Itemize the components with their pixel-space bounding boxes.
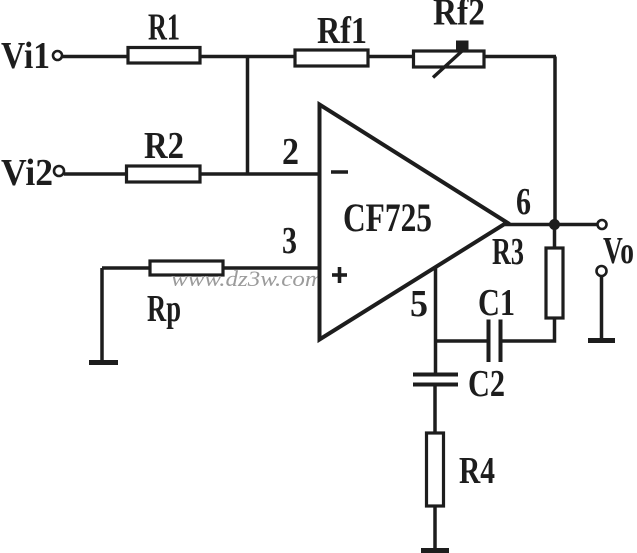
svg-text:CF725: CF725: [343, 195, 432, 240]
wire Vi2 row to pin 2: [64, 172, 318, 176]
resistor R3: [546, 248, 563, 318]
ground bottom: [421, 548, 449, 553]
wire R3 bottom to C1: [500, 318, 555, 341]
resistor R2: [127, 166, 201, 182]
svg-text:C1: C1: [478, 282, 515, 324]
wire feedback vertical right rail: [553, 57, 557, 226]
terminal ground stub circle: [597, 266, 607, 276]
wire pin 3 row: [102, 266, 318, 270]
junction node output: [549, 219, 560, 230]
wire left ground drop: [100, 268, 104, 361]
svg-text:C2: C2: [468, 363, 505, 405]
wire C2 to R4: [433, 385, 437, 433]
svg-text:R1: R1: [148, 7, 180, 49]
svg-text:2: 2: [282, 131, 299, 173]
potentiometer Rf2: [414, 41, 485, 78]
svg-text:3: 3: [282, 220, 297, 262]
svg-text:R3: R3: [492, 231, 524, 273]
capacitor C2: [413, 375, 458, 385]
svg-text:Rf1: Rf1: [317, 10, 367, 52]
svg-text:6: 6: [516, 181, 531, 223]
wire node to R3: [553, 225, 557, 248]
svg-text:R4: R4: [459, 450, 495, 492]
svg-text:Rf2: Rf2: [433, 0, 485, 34]
terminal Vi2: [54, 166, 64, 176]
terminal Vo: [598, 220, 607, 229]
wire Vo ground drop: [600, 276, 604, 339]
wire top rail Vi1 to corner: [62, 55, 556, 59]
svg-text:Vo: Vo: [603, 230, 634, 272]
resistor Rf1: [295, 50, 368, 66]
resistor R4: [427, 433, 444, 506]
svg-text:Rp: Rp: [147, 288, 181, 330]
capacitor C1: [489, 320, 501, 363]
ground left: [89, 360, 118, 365]
wire junction vertical R1/R2 node: [246, 57, 250, 175]
resistor R1: [128, 48, 200, 64]
resistor Rp: [150, 261, 223, 275]
wire R4 to ground: [433, 506, 437, 549]
svg-text:R2: R2: [144, 125, 184, 167]
op-amp U1 CF725: [320, 105, 508, 340]
ground right: [588, 338, 615, 343]
svg-text:Vi1: Vi1: [1, 35, 50, 77]
wire output pin 6: [505, 223, 597, 227]
svg-text:5: 5: [410, 283, 428, 325]
svg-text:www.dz3w.com: www.dz3w.com: [171, 266, 323, 291]
svg-text:Vi2: Vi2: [1, 152, 53, 194]
wire pin 5 vertical: [434, 266, 438, 373]
terminal Vi1: [53, 51, 62, 60]
wire C1 left to pin5 node: [436, 339, 490, 343]
